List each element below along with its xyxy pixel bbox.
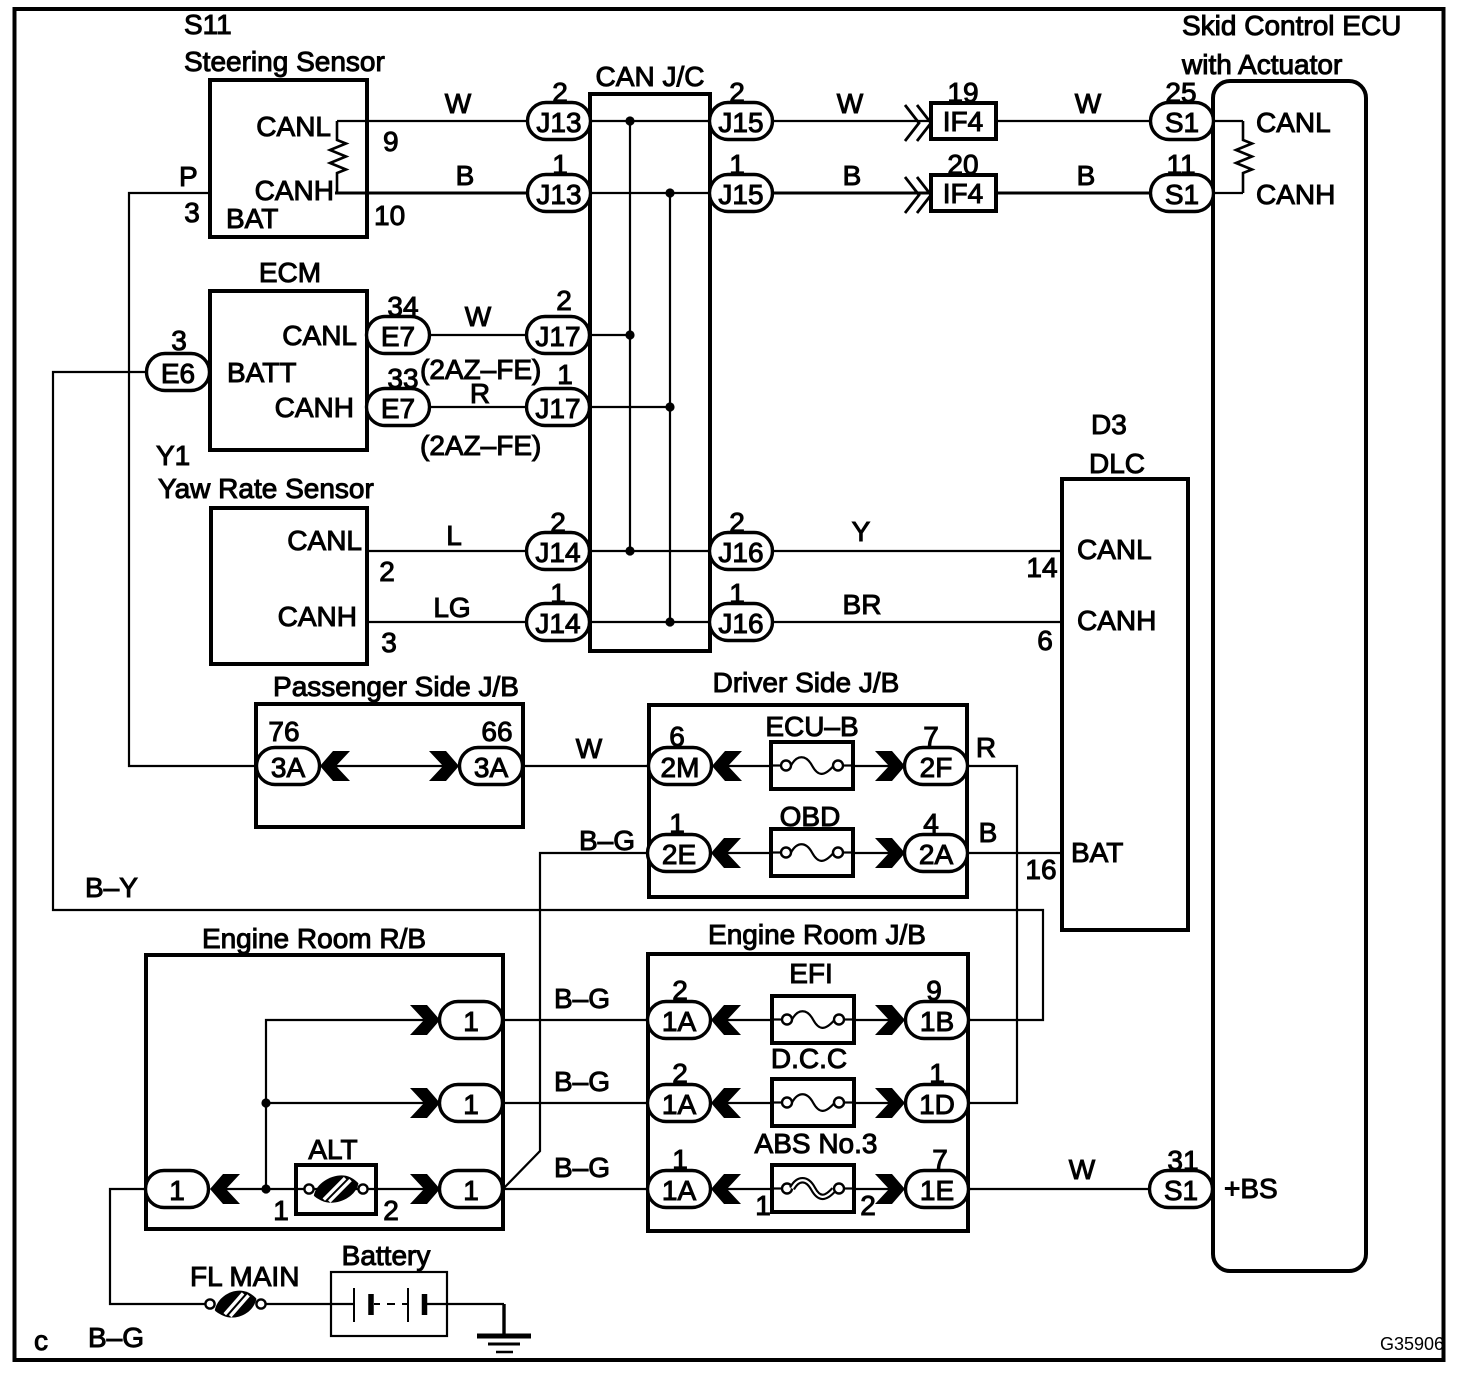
mating chevron at 1E [875, 1174, 905, 1204]
wire W: ECM CANL E7 pin 34 to junction J17 pin 2 [429, 334, 528, 336]
wire inside Driver J/B rows: 1A to fuses and fuses to 1B/1D/1E [727, 1019, 772, 1021]
svg-text:1B: 1B [920, 1006, 954, 1037]
connector 1A pin 2 (EFI row) [648, 1002, 711, 1039]
junction block Driver Side J/B [649, 667, 967, 897]
svg-text:Engine Room J/B: Engine Room J/B [708, 919, 926, 950]
mating chevron at 3A-66 [429, 751, 459, 781]
svg-text:1: 1 [463, 1006, 479, 1037]
connector 1B pin 9 [906, 1002, 969, 1039]
ground symbol [477, 1336, 531, 1352]
connector J16 pin 2 [710, 533, 773, 570]
svg-text:7: 7 [932, 1144, 948, 1175]
svg-text:CANH: CANH [278, 601, 357, 632]
svg-text:E7: E7 [381, 393, 415, 424]
svg-text:Battery: Battery [342, 1240, 431, 1271]
svg-text:2: 2 [556, 285, 572, 316]
svg-text:ABS No.3: ABS No.3 [755, 1128, 878, 1159]
svg-text:IF4: IF4 [943, 178, 983, 209]
svg-text:3A: 3A [474, 752, 509, 783]
svg-text:W: W [576, 733, 603, 764]
component ECM [210, 257, 367, 450]
mating chevron at 2E [711, 838, 741, 868]
wire inside Engine Room R/B: middle row to connector 1 [266, 1102, 424, 1104]
svg-text:CANH: CANH [1256, 179, 1335, 210]
svg-text:1: 1 [550, 578, 566, 609]
svg-text:B: B [1077, 160, 1096, 191]
svg-text:B–G: B–G [88, 1322, 144, 1353]
svg-text:31: 31 [1167, 1145, 1198, 1176]
junction dot CANH bus at J15 row [665, 188, 674, 197]
svg-text:2: 2 [729, 77, 745, 108]
svg-text:B–G: B–G [554, 983, 610, 1014]
component Y1 Yaw Rate Sensor [156, 440, 374, 664]
svg-text:Passenger Side J/B: Passenger Side J/B [273, 671, 519, 702]
svg-text:1: 1 [729, 578, 745, 609]
connector E6 pin 3 (ECM BATT) [147, 354, 210, 391]
connector S1 pin 25 (ECU CANL) [1151, 103, 1214, 140]
svg-text:1: 1 [273, 1195, 289, 1226]
svg-text:Yaw Rate Sensor: Yaw Rate Sensor [158, 473, 374, 504]
svg-text:2A: 2A [919, 839, 954, 870]
svg-text:2: 2 [672, 1058, 688, 1089]
resistor: S11 CAN terminating resistor [330, 121, 346, 193]
svg-text:S11: S11 [184, 9, 232, 40]
wire B-G: Engine Room R/B to Engine Room J/B 1A (ABS No.3 row) [503, 1188, 648, 1190]
svg-text:J14: J14 [535, 608, 580, 639]
wire R: ECM CANH E7 pin 33 to junction J17 pin 1 [429, 406, 528, 408]
connector J13 pin 1 [528, 175, 591, 212]
connector E7 pin 33 (ECM CANH) [367, 389, 430, 426]
wire stub S1-25 to ECU terminating resistor [1213, 120, 1243, 122]
junction dot CANL bus at J17 row [625, 330, 634, 339]
fuse EFI [772, 996, 854, 1043]
svg-text:(2AZ–FE): (2AZ–FE) [420, 430, 541, 461]
svg-text:CANH: CANH [1077, 605, 1156, 636]
svg-text:Steering Sensor: Steering Sensor [184, 46, 385, 77]
svg-text:LG: LG [433, 592, 470, 623]
svg-text:6: 6 [1037, 625, 1053, 656]
mating chevron at 1A EFI [711, 1005, 741, 1035]
connector 1 (Engine Room R/B, battery feed) [146, 1171, 209, 1208]
wire inside CAN J/C: J13-1 to J15-1 bus row [590, 192, 710, 194]
connector 2M pin 6 [649, 748, 712, 785]
wire W: S11 CANL pin 9 to junction J13 pin 2 [337, 120, 528, 122]
svg-text:20: 20 [947, 149, 978, 180]
svg-text:BAT: BAT [226, 203, 278, 234]
connector S1 pin 31 (ECU +BS) [1150, 1171, 1213, 1208]
mating chevron at 2M [712, 751, 742, 781]
svg-text:c: c [34, 1325, 48, 1356]
wire W: IF4 19 to Skid Control ECU S1 pin 25 [996, 120, 1151, 122]
wire W: Passenger Side J/B 3A pin 66 to Driver Side J/B 2M pin 6 [523, 765, 650, 767]
component D3 DLC (data link connector) [1062, 409, 1188, 930]
svg-text:1A: 1A [662, 1175, 697, 1206]
junction block CAN J/C [590, 61, 710, 651]
svg-text:B–G: B–G [554, 1066, 610, 1097]
junction dot CANH bus at J14 row [665, 617, 674, 626]
connector 1 (Engine Room R/B, ALT row right) [440, 1171, 503, 1208]
resistor: Skid Control ECU CAN terminating resistor [1236, 121, 1252, 193]
svg-text:4: 4 [923, 808, 939, 839]
component Skid Control ECU with Actuator [1181, 10, 1401, 1271]
connector 2F pin 7 [905, 748, 968, 785]
connector 1E pin 7 [906, 1171, 969, 1208]
fusible link FL MAIN [205, 1287, 265, 1321]
connector 1 (Engine Room R/B, D.C.C row) [440, 1085, 503, 1122]
svg-text:33: 33 [387, 363, 418, 394]
connector J15 pin 2 [710, 103, 773, 140]
wire inside Driver Side J/B: OBD fuse to 2A [853, 852, 889, 854]
svg-text:L: L [446, 520, 462, 551]
svg-text:E6: E6 [161, 358, 195, 389]
wire: Battery negative to ground [427, 1303, 504, 1305]
svg-text:CAN J/C: CAN J/C [596, 61, 705, 92]
svg-text:J17: J17 [535, 321, 580, 352]
svg-text:R: R [976, 732, 996, 763]
svg-text:D.C.C: D.C.C [771, 1043, 847, 1074]
in-line connector IF4 no.20 [905, 175, 996, 213]
svg-text:DLC: DLC [1089, 448, 1145, 479]
svg-text:Skid Control ECU: Skid Control ECU [1182, 10, 1401, 41]
wire inside CAN J/C: J17-2 stub to CANL bus [590, 334, 630, 336]
CANL bus vertical inside CAN J/C [629, 121, 631, 551]
svg-text:CANL: CANL [256, 111, 331, 142]
svg-text:CANL: CANL [1256, 107, 1331, 138]
svg-text:ALT: ALT [308, 1134, 357, 1165]
svg-text:W: W [465, 301, 492, 332]
svg-text:9: 9 [383, 126, 399, 157]
component S11 Steering Sensor [184, 9, 385, 237]
component Battery [331, 1240, 447, 1336]
svg-text:10: 10 [374, 200, 405, 231]
svg-text:1A: 1A [662, 1006, 697, 1037]
svg-text:FL MAIN: FL MAIN [190, 1261, 299, 1292]
svg-text:BR: BR [843, 589, 882, 620]
wire B-G: Engine Room R/B to Engine Room J/B 1A (D.C.C row) [503, 1102, 648, 1104]
svg-text:Engine Room R/B: Engine Room R/B [202, 923, 426, 954]
junction dot CANL bus at J14 row [625, 546, 634, 555]
svg-text:1: 1 [169, 1175, 185, 1206]
svg-text:W: W [837, 88, 864, 119]
svg-text:D3: D3 [1091, 409, 1127, 440]
mating chevron (EFI row) [410, 1005, 440, 1035]
mating chevron at 2A [875, 838, 905, 868]
svg-text:IF4: IF4 [943, 106, 983, 137]
connector 1A pin 2 (D.C.C row) [648, 1085, 711, 1122]
svg-text:R: R [470, 378, 490, 409]
wire Y: J16 pin 2 to DLC CANL pin 14 [772, 550, 1062, 552]
svg-text:CANL: CANL [282, 320, 357, 351]
svg-text:1: 1 [672, 1144, 688, 1175]
wire B: IF4 20 to Skid Control ECU S1 pin 11 [996, 191, 1151, 194]
svg-text:6: 6 [669, 721, 685, 752]
fuse OBD [771, 829, 853, 876]
svg-text:9: 9 [926, 975, 942, 1006]
svg-text:S1: S1 [1165, 179, 1199, 210]
svg-text:11: 11 [1166, 149, 1195, 180]
svg-text:W: W [445, 88, 472, 119]
connector J16 pin 1 [710, 604, 773, 641]
junction block Passenger Side J/B [256, 671, 523, 827]
svg-text:7: 7 [923, 721, 939, 752]
connector J15 pin 1 [710, 175, 773, 212]
svg-text:1: 1 [729, 149, 745, 180]
wire B: Driver Side J/B 2A pin 4 to DLC BAT pin 16 [967, 852, 1062, 854]
svg-text:3A: 3A [271, 752, 306, 783]
fuse D.C.C [772, 1079, 854, 1126]
svg-text:1: 1 [755, 1190, 771, 1221]
junction block Engine Room J/B [648, 919, 968, 1231]
svg-text:B–G: B–G [554, 1152, 610, 1183]
svg-text:19: 19 [947, 77, 978, 108]
svg-text:1: 1 [552, 149, 568, 180]
svg-text:P: P [179, 161, 198, 192]
svg-text:J13: J13 [536, 179, 581, 210]
svg-text:1D: 1D [919, 1089, 955, 1120]
svg-text:Driver Side J/B: Driver Side J/B [713, 667, 900, 698]
wire R: Driver Side J/B 2F pin 7 down to Engine Room J/B 1D pin 1 [967, 766, 1017, 1103]
mating chevron at 1D [875, 1088, 905, 1118]
wire inside CAN J/C: J13-2 to J15-2 bus row [590, 120, 710, 122]
connector J13 pin 2 [528, 103, 591, 140]
svg-text:2: 2 [550, 507, 566, 538]
svg-text:S1: S1 [1165, 107, 1199, 138]
wire inside Driver Side J/B: ECU-B fuse to 2F [853, 765, 889, 767]
connector J17 pin 1 [527, 389, 590, 426]
mating chevron at 3A-76 [320, 751, 350, 781]
svg-text:Y: Y [852, 516, 871, 547]
mating chevron (D.C.C row) [410, 1088, 440, 1118]
wire B-Y: ECM BATT E6 pin 3 across to Engine Room J/B 1B pin 9 [53, 372, 1043, 1020]
svg-text:3: 3 [171, 325, 187, 356]
connector J14 pin 2 [527, 533, 590, 570]
svg-text:Y1: Y1 [156, 440, 190, 471]
svg-text:B–G: B–G [579, 825, 635, 856]
wire inside Engine Room R/B: distribution vertical [266, 1020, 424, 1189]
connector 1D pin 1 [906, 1085, 969, 1122]
svg-text:1: 1 [463, 1175, 479, 1206]
svg-text:1: 1 [929, 1058, 945, 1089]
svg-text:B: B [979, 817, 998, 848]
svg-text:3: 3 [381, 627, 397, 658]
svg-text:W: W [1069, 1154, 1096, 1185]
svg-text:1A: 1A [662, 1089, 697, 1120]
connector 2E pin 1 [648, 835, 711, 872]
svg-text:BAT: BAT [1071, 837, 1123, 868]
wire inside Driver Side J/B: 2M to ECU-B fuse [728, 765, 771, 767]
svg-text:B–Y: B–Y [85, 872, 138, 903]
svg-text:G35906: G35906 [1380, 1334, 1444, 1354]
mating chevron at 2F [875, 751, 905, 781]
svg-text:B: B [456, 160, 475, 191]
svg-text:J13: J13 [536, 107, 581, 138]
svg-text:W: W [1075, 88, 1102, 119]
svg-text:1: 1 [557, 359, 573, 390]
mating chevron at 1B [875, 1005, 905, 1035]
wire B: S11 CANH pin 10 to junction J13 pin 1 [335, 191, 528, 194]
fuse ECU-B [771, 742, 853, 789]
svg-text:2: 2 [383, 1195, 399, 1226]
svg-text:ECM: ECM [259, 257, 321, 288]
svg-text:76: 76 [268, 716, 299, 747]
svg-text:2E: 2E [662, 839, 696, 870]
svg-text:J15: J15 [718, 107, 763, 138]
svg-text:EFI: EFI [789, 958, 833, 989]
junction dot Engine Room R/B at ALT row [261, 1184, 270, 1193]
svg-text:J16: J16 [718, 608, 763, 639]
svg-text:J14: J14 [535, 537, 580, 568]
wire B: J15 pin 1 to IF4 connector 20 [772, 191, 929, 194]
wire P: S11 BAT pin 3 down-left to Passenger Side J/B 3A pin 76 [129, 193, 256, 766]
svg-text:2: 2 [860, 1190, 876, 1221]
connector 1 (Engine Room R/B, EFI row) [440, 1002, 503, 1039]
svg-text:CANL: CANL [287, 525, 362, 556]
wire inside CAN J/C: J14-1 to J16-1 bus row [590, 621, 710, 623]
wire inside Passenger Side J/B between 3A connectors [336, 765, 443, 767]
wire B-G: Engine Room R/B connector 1 to FL MAIN and Battery [110, 1189, 206, 1304]
wire B-G: Engine Room R/B to Engine Room J/B 1A (EFI row) [503, 1019, 648, 1021]
mating chevron at 1A D.C.C [711, 1088, 741, 1118]
svg-text:66: 66 [481, 716, 512, 747]
wire B-G: Driver Side J/B 2E pin 1 down to Engine Room R/B node [503, 853, 650, 1189]
svg-text:S1: S1 [1164, 1175, 1198, 1206]
wire BR: J16 pin 1 to DLC CANH pin 6 [772, 621, 1062, 623]
fuse ALT [296, 1165, 376, 1214]
svg-text:1E: 1E [920, 1175, 954, 1206]
relay block Engine Room R/B [146, 923, 503, 1229]
connector 2A pin 4 [905, 835, 968, 872]
svg-text:16: 16 [1025, 854, 1056, 885]
svg-text:CANL: CANL [1077, 534, 1152, 565]
mating chevron at 1A ABS [711, 1174, 741, 1204]
svg-text:J17: J17 [535, 393, 580, 424]
svg-text:34: 34 [387, 291, 418, 322]
junction dot CANL bus at J13 row [625, 116, 634, 125]
svg-text:25: 25 [1165, 77, 1196, 108]
wire inside Engine Room R/B: ALT row [226, 1188, 424, 1190]
connector 3A pin 66 [460, 748, 523, 785]
connector S1 pin 11 (ECU CANH) [1151, 175, 1214, 212]
svg-text:J15: J15 [718, 179, 763, 210]
mating chevron (battery feed) [210, 1174, 240, 1204]
svg-text:2: 2 [379, 556, 395, 587]
wire stub S1-11 to ECU terminating resistor [1213, 192, 1243, 194]
svg-text:ECU–B: ECU–B [765, 711, 858, 742]
svg-text:1: 1 [463, 1089, 479, 1120]
svg-text:3: 3 [184, 197, 200, 228]
svg-text:2: 2 [552, 77, 568, 108]
wire W: Engine Room J/B 1E pin 7 to Skid Control ECU S1 pin 31 (+BS) [968, 1188, 1151, 1190]
mating chevron (ALT row right) [410, 1174, 440, 1204]
connector 3A pin 76 [257, 748, 320, 785]
svg-text:CANH: CANH [275, 392, 354, 423]
connector 1A pin 1 (ABS No.3 row) [648, 1171, 711, 1208]
svg-text:2M: 2M [661, 752, 700, 783]
svg-text:1: 1 [669, 808, 685, 839]
in-line connector IF4 no.19 [905, 103, 996, 141]
junction dot Engine Room R/B at middle row [261, 1098, 270, 1107]
svg-text:E7: E7 [381, 321, 415, 352]
wire W: J15 pin 2 to IF4 connector 19 [772, 120, 929, 122]
svg-text:14: 14 [1026, 552, 1057, 583]
svg-text:OBD: OBD [780, 801, 841, 832]
wire L: Yaw Rate Sensor CANL pin 2 to junction J14 pin 2 [367, 550, 528, 552]
svg-text:B: B [843, 160, 862, 191]
svg-text:2: 2 [672, 975, 688, 1006]
junction dot CANH bus at J17 row [665, 402, 674, 411]
svg-text:with Actuator: with Actuator [1181, 49, 1342, 80]
wire inside Driver Side J/B: 2E to OBD fuse [727, 852, 771, 854]
svg-text:2F: 2F [920, 752, 953, 783]
svg-text:+BS: +BS [1224, 1173, 1278, 1204]
wire inside CAN J/C: J17-1 stub to CANH bus [590, 406, 670, 408]
svg-text:J16: J16 [718, 537, 763, 568]
fuse ABS No.3 [772, 1165, 854, 1212]
wire: FL MAIN to Battery positive plate [265, 1303, 354, 1305]
svg-text:2: 2 [729, 507, 745, 538]
svg-text:CANH: CANH [255, 175, 334, 206]
CANH bus vertical inside CAN J/C [669, 193, 671, 622]
wire LG: Yaw Rate Sensor CANH pin 3 to junction J14 pin 1 [367, 621, 528, 623]
connector J17 pin 2 [527, 317, 590, 354]
wire inside CAN J/C: J14-2 to J16-2 bus row [590, 550, 710, 552]
svg-text:BATT: BATT [227, 357, 296, 388]
connector J14 pin 1 [527, 604, 590, 641]
connector E7 pin 34 (ECM CANL) [367, 317, 430, 354]
